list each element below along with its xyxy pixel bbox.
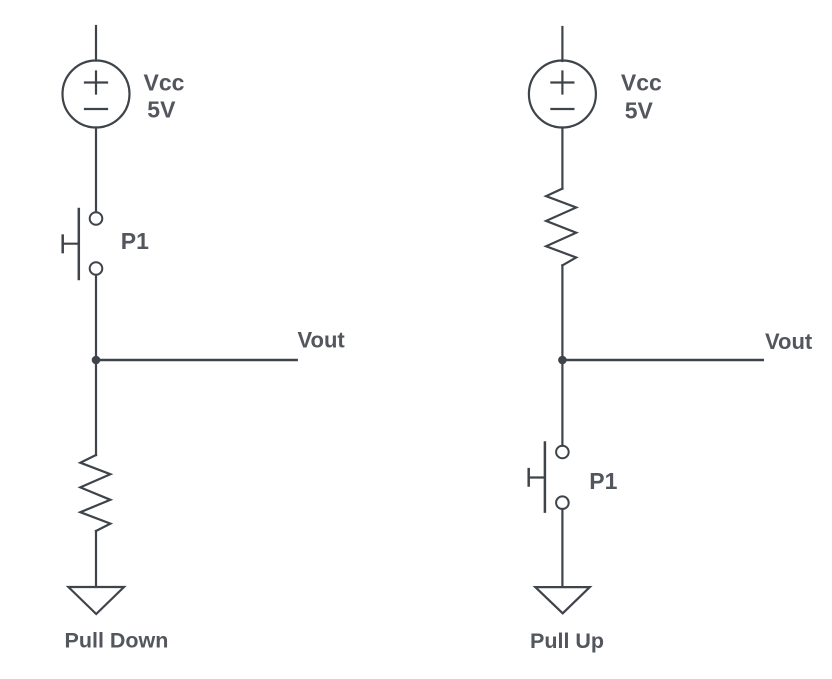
wire: node Vout to resistor R1 (left) (95, 360, 97, 455)
pushbutton P1 (left): plunger bar (78, 209, 81, 279)
voltage source V2 Vcc 5V (right circuit) (529, 61, 596, 128)
pushbutton P1 (right): actuator cap tick (527, 469, 530, 485)
voltage source V1 Vcc 5V (left circuit) (63, 61, 130, 128)
wire: node to Vout terminal (right, horizontal) (562, 359, 762, 361)
pushbutton P1 (left): top contact circle (90, 212, 103, 225)
wire: top lead into voltage source (left circuit) (95, 26, 97, 61)
svg-text:5V: 5V (147, 97, 176, 123)
node junction dot at Vout (left) (92, 356, 101, 365)
resistor R2 (right, pull-up resistor) (546, 189, 576, 266)
wire: pushbutton P1 to node Vout (left) (95, 275, 97, 360)
wire: resistor R2 to node Vout (right) (561, 265, 563, 360)
node junction dot at Vout (right) (558, 356, 567, 365)
wire: V1 to pushbutton P1 (left) (95, 128, 97, 213)
pushbutton P1 (right): top contact circle (556, 446, 569, 459)
svg-text:5V: 5V (625, 97, 654, 123)
svg-text:Vcc: Vcc (621, 69, 662, 95)
wire: node Vout to pushbutton P1 (right) (561, 360, 563, 446)
wire: top lead into voltage source (right circuit) (561, 27, 563, 61)
wire: V2 to resistor R2 (right) (561, 128, 563, 189)
ground symbol (left circuit) (68, 587, 124, 614)
svg-text:Vcc: Vcc (144, 70, 185, 96)
pushbutton P1 (right): actuator stem (529, 476, 544, 478)
svg-text:P1: P1 (121, 228, 149, 254)
svg-text:Pull Up: Pull Up (530, 629, 604, 653)
wire: node to Vout terminal (left, horizontal) (96, 359, 297, 361)
pushbutton P1 (left): actuator cap tick (61, 236, 64, 253)
plus terminal mark of V2 (right) (551, 72, 573, 94)
pushbutton P1 (right): plunger bar (544, 443, 547, 512)
minus terminal mark of V2 (right) (551, 108, 573, 110)
wire: pushbutton P1 to ground (right) (561, 509, 563, 586)
svg-text:Vout: Vout (298, 328, 346, 353)
ground symbol (right circuit) (535, 587, 590, 613)
wire: resistor R1 to ground (left) (95, 531, 97, 587)
svg-text:Vout: Vout (765, 329, 813, 354)
pushbutton P1 (right): bottom contact circle (556, 496, 569, 509)
svg-text:P1: P1 (589, 468, 617, 494)
svg-text:Pull Down: Pull Down (65, 629, 169, 653)
minus terminal mark of V1 (left) (85, 108, 107, 110)
plus terminal mark of V1 (left) (85, 72, 107, 94)
resistor R1 (left, pull-down resistor) (80, 455, 110, 531)
pushbutton P1 (left): actuator stem (63, 243, 78, 245)
pushbutton P1 (left): bottom contact circle (90, 262, 103, 275)
